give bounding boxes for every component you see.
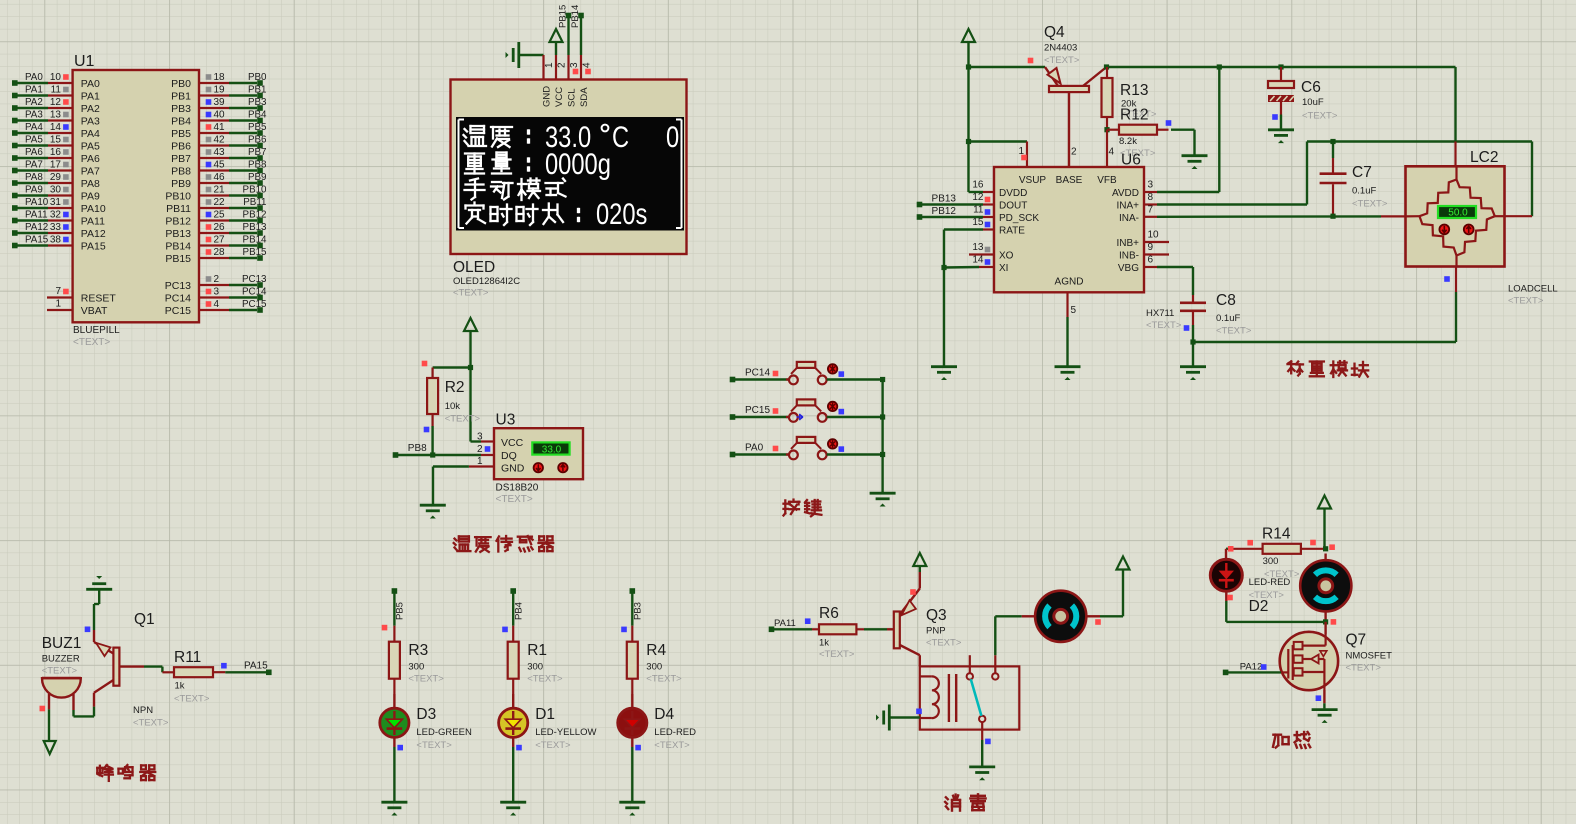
svg-text:10k: 10k xyxy=(445,401,461,412)
U1 pin PA4 (14) wire and terminal xyxy=(12,122,100,140)
LC2 refdes label xyxy=(1470,149,1498,166)
OLED refdes and value labels xyxy=(453,259,520,299)
transistor Q1 NPN xyxy=(94,630,144,701)
svg-text:<TEXT>: <TEXT> xyxy=(1352,199,1388,210)
OLED pin 1 GND xyxy=(544,55,556,80)
caption temperature sensor xyxy=(454,536,554,552)
svg-text:PA12: PA12 xyxy=(81,228,106,240)
svg-text:21: 21 xyxy=(214,184,226,195)
svg-text:0000g: 0000g xyxy=(545,147,611,180)
power arrow above Q3 xyxy=(913,553,926,572)
terminal PA0 xyxy=(730,443,779,458)
U1 pin PA9 (30) wire and terminal xyxy=(12,184,100,202)
svg-text:30: 30 xyxy=(50,184,62,195)
svg-text:12: 12 xyxy=(50,97,62,108)
pushbutton PA0 xyxy=(786,437,827,459)
U6 pin 16 DVDD wire xyxy=(969,180,995,193)
svg-text:R6: R6 xyxy=(819,605,839,622)
OLED pin 3 SCL xyxy=(569,55,581,80)
wire D2 to fan bottom node xyxy=(1226,601,1325,622)
svg-text:PB5: PB5 xyxy=(248,122,267,133)
svg-text:DS18B20: DS18B20 xyxy=(496,483,539,494)
wire top rail left segment xyxy=(969,66,1046,68)
svg-text:U3: U3 xyxy=(496,412,516,429)
svg-text:PB3: PB3 xyxy=(171,103,191,115)
LC2 value LOADCELL xyxy=(1508,284,1558,307)
svg-text:PA11: PA11 xyxy=(81,215,105,227)
junction C8 / LC2 bottom wire xyxy=(1190,339,1195,344)
svg-text:PC13: PC13 xyxy=(165,280,191,292)
svg-text:PA4: PA4 xyxy=(25,122,43,133)
svg-text:PB11: PB11 xyxy=(166,203,191,215)
svg-text:PA1: PA1 xyxy=(81,90,100,102)
svg-text:3: 3 xyxy=(1148,180,1154,191)
svg-text:DVDD: DVDD xyxy=(999,188,1027,199)
svg-text:43: 43 xyxy=(214,147,226,158)
ground below C6 xyxy=(1268,130,1294,143)
svg-text:0.1uF: 0.1uF xyxy=(1216,313,1240,324)
wire PB5 to R3 xyxy=(382,593,395,630)
cursor mark at PC15 contact xyxy=(797,414,804,420)
svg-text:10uF: 10uF xyxy=(1302,97,1324,108)
D1 labels xyxy=(516,706,596,751)
U1 pin PB12 (25) wire and terminal xyxy=(165,209,266,227)
wire PA12 to Q7 gate xyxy=(1228,671,1281,673)
svg-text:26: 26 xyxy=(214,222,226,233)
terminal PC14 xyxy=(730,368,779,383)
svg-text:LED-YELLOW: LED-YELLOW xyxy=(535,727,596,738)
wire relay common to ground xyxy=(982,722,990,766)
svg-text:PB14: PB14 xyxy=(570,5,581,28)
capacitor C6 10uF polarized xyxy=(1268,64,1294,88)
U6 pin 10 INB+ stub xyxy=(1144,230,1169,243)
svg-text:14: 14 xyxy=(972,255,984,266)
LED D2 red xyxy=(1210,549,1242,601)
svg-text:PB0: PB0 xyxy=(171,78,191,90)
svg-text:PB9: PB9 xyxy=(248,172,267,183)
svg-text:D1: D1 xyxy=(535,706,555,723)
svg-text:INA+: INA+ xyxy=(1116,200,1139,211)
svg-text:38: 38 xyxy=(50,234,62,245)
C6 labels xyxy=(1301,79,1338,122)
svg-text:PB11: PB11 xyxy=(243,197,266,208)
ground below C8 xyxy=(1180,367,1206,380)
svg-text:33.0: 33.0 xyxy=(542,444,562,455)
svg-text:PA5: PA5 xyxy=(81,140,100,152)
svg-text:SDA: SDA xyxy=(579,87,590,107)
svg-text:17: 17 xyxy=(50,159,62,170)
svg-text:300: 300 xyxy=(527,662,543,673)
svg-text:8: 8 xyxy=(1148,192,1154,203)
power arrow above R14 xyxy=(1318,496,1331,549)
wire C8 to ground xyxy=(1192,342,1194,366)
svg-text:PB1: PB1 xyxy=(171,90,191,102)
svg-text:PC13: PC13 xyxy=(242,274,267,285)
svg-text:PB3: PB3 xyxy=(248,97,267,108)
svg-text:42: 42 xyxy=(214,134,226,145)
svg-text:INA-: INA- xyxy=(1119,213,1139,224)
svg-text:PA11: PA11 xyxy=(25,209,48,220)
svg-text:PB6: PB6 xyxy=(248,134,267,145)
U3 inside pin names xyxy=(501,437,525,474)
LED D1 LED-YELLOW xyxy=(499,694,528,747)
Q3 labels xyxy=(926,607,962,649)
ground below Q7 xyxy=(1312,710,1338,723)
svg-text:U6: U6 xyxy=(1121,152,1141,169)
relay contact pins xyxy=(967,655,999,722)
LC2 wheatstone bridge zigzags xyxy=(1406,166,1505,266)
svg-text:<TEXT>: <TEXT> xyxy=(1146,320,1182,331)
U6 pin 5 AGND wire xyxy=(1068,292,1077,365)
svg-text:45: 45 xyxy=(214,159,226,170)
svg-text:<TEXT>: <TEXT> xyxy=(527,674,563,685)
wire Q1 base to R11 xyxy=(144,667,162,673)
svg-text:R4: R4 xyxy=(646,642,666,659)
svg-text:PA0: PA0 xyxy=(81,78,100,90)
svg-text:12: 12 xyxy=(972,192,984,203)
wire buzzer left pin to output arrow xyxy=(40,706,50,741)
wire motor to power arrow xyxy=(1100,570,1123,617)
svg-text:4: 4 xyxy=(214,299,220,310)
button PC14 actuator xyxy=(828,364,844,377)
resistor R4 300 xyxy=(627,626,638,694)
U1 pin PB5 (41) wire and terminal xyxy=(171,122,267,140)
svg-text:PC14: PC14 xyxy=(745,368,770,379)
svg-text:11: 11 xyxy=(51,84,62,95)
svg-text:<TEXT>: <TEXT> xyxy=(73,337,110,348)
junction R2 top rail xyxy=(433,365,474,370)
svg-text:BLUEPILL: BLUEPILL xyxy=(73,325,120,336)
svg-text:PB8: PB8 xyxy=(248,159,267,170)
svg-text:<TEXT>: <TEXT> xyxy=(646,674,682,685)
OLED screen text line4 timer xyxy=(466,197,648,230)
svg-text:LC2: LC2 xyxy=(1470,149,1498,166)
svg-text:PB9: PB9 xyxy=(171,178,191,190)
U1 pin PA10 (31) wire and terminal xyxy=(12,197,106,215)
svg-text:PC15: PC15 xyxy=(745,405,770,416)
wire D3 to ground xyxy=(393,747,395,801)
svg-text:PB12: PB12 xyxy=(932,206,957,217)
svg-text:31: 31 xyxy=(50,197,62,208)
U1 pin PC13 (2) wire and terminal xyxy=(165,274,267,292)
svg-text:D3: D3 xyxy=(416,706,436,723)
ground below RATE/XI xyxy=(931,367,957,380)
U1 pin PA6 (16) wire and terminal xyxy=(12,147,100,165)
svg-text:PA10: PA10 xyxy=(25,197,49,208)
wire D1 to ground xyxy=(512,747,514,801)
svg-text:Q1: Q1 xyxy=(134,611,155,628)
U1 pin PB3 (39) wire and terminal xyxy=(171,97,267,115)
svg-text:15: 15 xyxy=(50,134,62,145)
U6 pin 13 XO stub xyxy=(969,242,994,255)
junction PB8/R2/DQ xyxy=(430,452,435,457)
svg-text:PNP: PNP xyxy=(926,626,946,637)
U1 pin PB6 (42) wire and terminal xyxy=(171,134,267,152)
svg-text:PA2: PA2 xyxy=(81,103,100,115)
OLED screen xyxy=(456,117,684,231)
caption buttons xyxy=(784,500,822,517)
svg-text:<TEXT>: <TEXT> xyxy=(445,414,481,425)
svg-text:1k: 1k xyxy=(819,638,829,649)
LC2 bottom pin xyxy=(1444,267,1456,293)
wire button PC14 to bus xyxy=(827,377,885,382)
heating fan xyxy=(1300,554,1351,622)
U1 pin PA2 (12) wire and terminal xyxy=(12,97,100,115)
svg-text:PA9: PA9 xyxy=(25,184,43,195)
svg-text:<TEXT>: <TEXT> xyxy=(654,740,690,751)
svg-text:RATE: RATE xyxy=(999,225,1025,236)
ground below D4 xyxy=(619,802,645,815)
svg-text:C8: C8 xyxy=(1216,292,1236,309)
svg-text:PC15: PC15 xyxy=(165,305,191,317)
svg-text:SCL: SCL xyxy=(567,89,578,107)
svg-text:<TEXT>: <TEXT> xyxy=(819,649,855,660)
wire PC15 to button xyxy=(735,416,789,418)
button bus wire to ground xyxy=(881,380,883,493)
svg-text:R3: R3 xyxy=(408,642,428,659)
svg-text:VSUP: VSUP xyxy=(1019,175,1047,186)
resistor R1 300 xyxy=(508,626,519,694)
wire vertical from power arrow to DVDD xyxy=(967,42,969,192)
ground below relay xyxy=(969,767,995,780)
svg-text:2: 2 xyxy=(1071,147,1077,158)
svg-text:R1: R1 xyxy=(527,642,547,659)
svg-text:PA3: PA3 xyxy=(25,109,43,120)
svg-text:VFB: VFB xyxy=(1097,175,1117,186)
svg-text:8.2k: 8.2k xyxy=(1119,136,1137,147)
wire R12 to ground xyxy=(1171,130,1195,155)
svg-text:<TEXT>: <TEXT> xyxy=(408,674,444,685)
OLED pin 2 VCC xyxy=(556,55,568,80)
svg-text:4: 4 xyxy=(1109,147,1115,158)
wire PA0 to button xyxy=(735,453,789,455)
svg-text:AVDD: AVDD xyxy=(1112,188,1139,199)
U1 pin PA3 (13) wire and terminal xyxy=(12,109,100,127)
svg-text:LOADCELL: LOADCELL xyxy=(1508,284,1558,295)
svg-text:VCC: VCC xyxy=(554,87,565,107)
svg-text:46: 46 xyxy=(214,172,226,183)
svg-text:4: 4 xyxy=(582,62,593,68)
terminal PB5 xyxy=(392,588,406,620)
junction rail at AVDD riser xyxy=(1217,64,1222,69)
svg-text:R12: R12 xyxy=(1120,107,1148,124)
svg-text:R14: R14 xyxy=(1262,526,1291,543)
svg-text:C6: C6 xyxy=(1301,79,1321,96)
svg-text:9: 9 xyxy=(1148,242,1154,253)
svg-text:300: 300 xyxy=(646,662,662,673)
svg-text:PA8: PA8 xyxy=(81,178,100,190)
svg-text:LED-RED: LED-RED xyxy=(1249,577,1291,588)
caption weighing module xyxy=(1288,361,1369,377)
svg-text:Q7: Q7 xyxy=(1346,632,1367,649)
wire PA11 to R6 xyxy=(774,628,812,630)
svg-text:OLED12864I2C: OLED12864I2C xyxy=(453,276,520,287)
junction R14 fan rail xyxy=(1323,546,1328,551)
svg-text:<TEXT>: <TEXT> xyxy=(1044,55,1080,66)
svg-text:PA1: PA1 xyxy=(25,84,43,95)
LED D3 LED-GREEN xyxy=(380,694,409,747)
svg-text:Q3: Q3 xyxy=(926,607,947,624)
resistor R12 8.2k xyxy=(1107,125,1169,135)
U1 pin VBAT (1) xyxy=(47,299,108,317)
wire PB14 to OLED SDA xyxy=(570,5,584,55)
svg-text:6: 6 xyxy=(1148,255,1154,266)
R3 labels xyxy=(408,642,444,685)
transistor Q4 2N4403 xyxy=(1045,67,1107,167)
svg-text:PB15: PB15 xyxy=(243,247,268,258)
wire Q7 source to ground xyxy=(1316,690,1325,708)
U1 pin PB7 (43) wire and terminal xyxy=(171,147,266,165)
svg-text:PA0: PA0 xyxy=(25,72,43,83)
OLED pin names GND VCC SCL SDA xyxy=(542,86,591,107)
svg-text:PB7: PB7 xyxy=(171,153,191,165)
svg-text:C7: C7 xyxy=(1352,164,1372,181)
svg-text:2: 2 xyxy=(214,274,220,285)
wire D4 to ground xyxy=(631,747,633,801)
U1 BLUEPILL MCU body xyxy=(73,70,199,322)
D4 labels xyxy=(635,706,696,751)
svg-text:41: 41 xyxy=(214,122,226,133)
U1 pin PB15 (28) wire and terminal xyxy=(165,247,267,265)
svg-text:PA15: PA15 xyxy=(81,240,106,252)
svg-text:U1: U1 xyxy=(74,53,95,70)
svg-text:PA15: PA15 xyxy=(25,234,49,245)
ground below AGND xyxy=(1055,367,1081,380)
svg-text:32: 32 xyxy=(50,209,62,220)
U6 pin 6 VBG wire xyxy=(1144,255,1193,296)
svg-text:PB12: PB12 xyxy=(243,209,267,220)
caption buzzer xyxy=(97,765,155,781)
U6 pin 9 INB- stub xyxy=(1144,242,1169,255)
OLED screen text line2 weight xyxy=(465,147,611,180)
svg-text:PC14: PC14 xyxy=(242,286,267,297)
svg-text:<TEXT>: <TEXT> xyxy=(1216,326,1252,337)
U6 pin 8 INA+ wire xyxy=(1144,142,1307,205)
OLED pin 4 SDA xyxy=(581,55,593,80)
svg-text:PB4: PB4 xyxy=(171,115,191,127)
U3 pin 2 DQ stub xyxy=(477,444,494,455)
svg-text:NPN: NPN xyxy=(133,705,153,716)
pushbutton PC15 xyxy=(786,399,827,421)
svg-text:PB10: PB10 xyxy=(165,190,191,202)
svg-text:OLED: OLED xyxy=(453,259,495,276)
buzzer BUZ1 xyxy=(42,678,94,716)
U6 pin 12 DOUT wire PB13 xyxy=(917,192,994,207)
svg-text:10: 10 xyxy=(1148,230,1160,241)
U1 pin PB0 (18) wire and terminal xyxy=(171,72,267,90)
svg-text:19: 19 xyxy=(214,84,226,95)
svg-text:PB15: PB15 xyxy=(557,5,568,28)
OLED display body xyxy=(451,80,687,255)
terminal PA12 xyxy=(1223,662,1267,676)
svg-text:BUZ1: BUZ1 xyxy=(42,635,82,652)
svg-text:HX711: HX711 xyxy=(1146,308,1174,319)
svg-text:10: 10 xyxy=(50,72,62,83)
wire to Q1 collector xyxy=(85,604,94,632)
wire R6 to Q3 base xyxy=(864,628,887,630)
svg-text:PA5: PA5 xyxy=(25,134,43,145)
svg-text:1k: 1k xyxy=(175,681,185,692)
capacitor C7 0.1uF xyxy=(1320,139,1347,219)
U1 pin PB14 (27) wire and terminal xyxy=(165,234,267,252)
wire LC2 bottom to C8/ground xyxy=(1193,292,1456,342)
svg-text:PA2: PA2 xyxy=(25,97,43,108)
OLED screen text line1 temperature xyxy=(464,120,680,153)
U6 pin 4 VFB wire xyxy=(1107,130,1115,167)
wire RATE/XI to ground xyxy=(943,268,945,366)
svg-text:<TEXT>: <TEXT> xyxy=(453,288,489,299)
svg-text:PB13: PB13 xyxy=(165,228,191,240)
svg-text:GND: GND xyxy=(501,462,525,474)
svg-text:VBAT: VBAT xyxy=(81,305,108,317)
button PA0 actuator xyxy=(828,439,844,452)
U3 pin 1 GND stub xyxy=(469,456,494,467)
U3 down button xyxy=(534,463,543,472)
svg-text:<TEXT>: <TEXT> xyxy=(1302,111,1338,122)
svg-text:PB3: PB3 xyxy=(633,602,644,620)
svg-text:<TEXT>: <TEXT> xyxy=(416,740,452,751)
svg-text:PA7: PA7 xyxy=(81,165,100,177)
caption heating xyxy=(1273,732,1310,748)
LC2 display 50.0 xyxy=(1438,206,1476,219)
svg-text:3: 3 xyxy=(214,286,220,297)
svg-text:R13: R13 xyxy=(1120,82,1148,99)
wire U3 GND to ground xyxy=(433,467,469,505)
svg-text:13: 13 xyxy=(50,109,62,120)
relay switch arm xyxy=(971,679,982,716)
LC2 up button xyxy=(1464,225,1474,235)
junction at rail and power stem xyxy=(966,64,971,69)
svg-text:VBG: VBG xyxy=(1118,263,1139,274)
svg-text:22: 22 xyxy=(214,197,226,208)
svg-text:PB14: PB14 xyxy=(243,234,268,245)
svg-text:<TEXT>: <TEXT> xyxy=(42,666,78,677)
svg-text:PB14: PB14 xyxy=(165,240,191,252)
ground below buttons xyxy=(870,493,896,506)
wire PB4 to R1 xyxy=(502,593,513,632)
svg-text:PA9: PA9 xyxy=(81,190,100,202)
svg-text:PB6: PB6 xyxy=(171,140,191,152)
junction rail at R13 xyxy=(1104,64,1109,69)
U1 pin PB9 (46) wire and terminal xyxy=(171,172,266,190)
capacitor C8 0.1uF xyxy=(1180,295,1206,342)
wire PB3 to R4 xyxy=(621,593,632,632)
wire INA+ upper rail to LC2 right xyxy=(1307,142,1532,217)
U3 DS18B20 body xyxy=(494,428,583,479)
U1 pin PB11 (22) wire and terminal xyxy=(166,197,266,215)
U6 inside pin names xyxy=(999,175,1139,288)
svg-text:27: 27 xyxy=(214,234,226,245)
svg-text:020s: 020s xyxy=(596,197,647,230)
power arrow at OLED VCC xyxy=(550,29,563,55)
U1 refdes label xyxy=(74,53,95,70)
svg-text:R2: R2 xyxy=(445,379,465,396)
svg-text:PA11: PA11 xyxy=(774,618,796,629)
svg-text:D4: D4 xyxy=(654,706,674,723)
R1 labels xyxy=(527,642,563,685)
svg-text:50.0: 50.0 xyxy=(1448,208,1468,219)
svg-text:PA15: PA15 xyxy=(244,661,268,672)
svg-text:7: 7 xyxy=(1148,204,1154,215)
terminal PB3 xyxy=(630,588,644,620)
svg-text:PB4: PB4 xyxy=(248,109,267,120)
U1 pin PB13 (26) wire and terminal xyxy=(165,222,267,240)
svg-text:7: 7 xyxy=(55,286,61,297)
svg-text:<TEXT>: <TEXT> xyxy=(174,694,210,705)
svg-text:PB4: PB4 xyxy=(514,602,525,620)
U6 pin 11 PD_SCK wire PB12 xyxy=(917,205,994,220)
svg-text:PB8: PB8 xyxy=(408,443,427,454)
